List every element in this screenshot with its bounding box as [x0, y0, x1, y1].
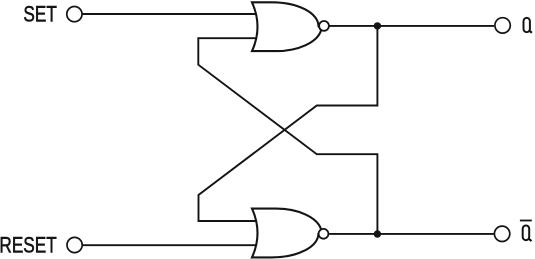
svg-text:SET: SET: [23, 3, 56, 27]
svg-text:RESET: RESET: [0, 234, 57, 258]
